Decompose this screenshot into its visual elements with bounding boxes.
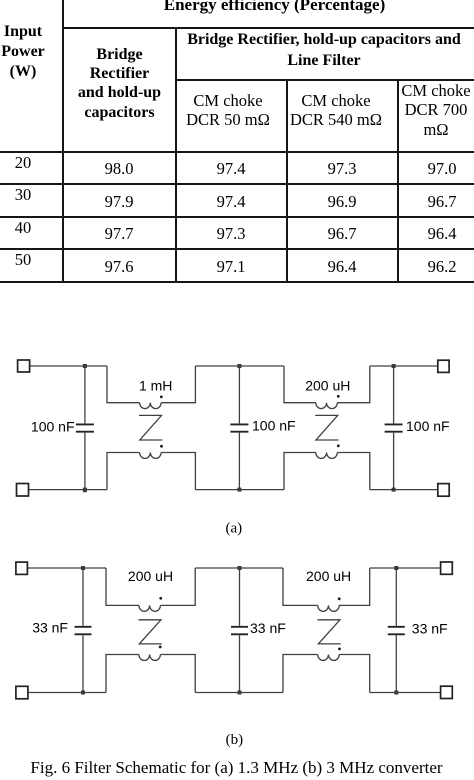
table horizontal line H4: [0, 183, 474, 185]
capacitor C5 33nF (b) top lead: [239, 568, 241, 626]
wire: (b) bottom rail left segment: [28, 692, 106, 694]
junction node (a) bottom of C3: [392, 488, 396, 492]
CM choke L2 (a) top winding wire right step: [337, 366, 370, 403]
table horizontal line H5: [0, 216, 474, 218]
capacitor C2 (a) plates: [230, 423, 248, 425]
CM choke L4 (b) bottom winding wire right step: [339, 655, 370, 693]
data row 1: 20: [0, 155, 63, 171]
CM choke L3 (b) bottom winding coil: [139, 655, 161, 661]
capacitor C3 100nF (a) bottom lead: [393, 433, 395, 490]
polarity dot L3 (b) top: [159, 597, 162, 600]
svg-text:33 nF: 33 nF: [32, 620, 68, 636]
table vertical line V1: [62, 0, 64, 283]
CM choke L1 (a) top winding coil: [140, 403, 162, 409]
junction node (b) top of C5: [238, 566, 242, 570]
CM choke L1 (a) top winding wire left step: [107, 366, 140, 403]
capacitor C6 33nF (b) bottom lead: [395, 635, 397, 692]
capacitor C4 33nF (b) bottom lead: [82, 635, 84, 692]
header: Input Power (W): [0, 22, 63, 82]
CM choke L3 (b) bottom winding wire right step: [160, 655, 195, 693]
capacitor C5 33nF (b) bottom lead: [239, 635, 241, 692]
header: CM choke DCR 50 mOhm: [168, 91, 288, 130]
table vertical line V4: [397, 79, 399, 283]
CM choke L2 (a) bottom winding wire right step: [337, 453, 370, 490]
svg-text:200 uH: 200 uH: [128, 568, 173, 584]
header: CM choke DCR 540 mOhm: [276, 91, 396, 130]
svg-text:200 uH: 200 uH: [306, 568, 351, 584]
header: CM choke DCR 700 mOhm: [386, 81, 474, 140]
wire: (a) bottom rail right segment: [370, 489, 438, 491]
CM choke L3 (b) top winding wire left step: [106, 568, 139, 605]
CM choke L1 (a) core Z symbol: [139, 415, 162, 440]
wire: (a) bottom rail middle segment: [195, 489, 284, 491]
junction node (b) bottom of C6: [394, 691, 398, 695]
svg-text:33 nF: 33 nF: [412, 621, 448, 637]
table vertical line V3: [286, 79, 288, 283]
junction node (a) top of C2: [237, 364, 241, 368]
CM choke L3 (b) top winding coil: [139, 605, 161, 611]
wire: (a) top rail right segment: [370, 365, 438, 367]
wire: (a) top rail middle segment: [195, 365, 284, 367]
polarity dot L1 (a) bottom: [160, 445, 163, 448]
table vertical line V2: [175, 27, 177, 283]
table horizontal line H3: [0, 151, 474, 153]
CM choke L1 (a) top winding wire right step: [161, 366, 195, 403]
wire: (a) bottom rail left segment: [29, 489, 108, 491]
svg-text:100 nF: 100 nF: [252, 418, 296, 434]
wire: (b) bottom rail middle segment: [195, 692, 283, 694]
terminal port (a) bottom-left: [17, 484, 29, 497]
capacitor C3 100nF (a) top lead: [393, 366, 395, 423]
data row 4: 50: [0, 252, 63, 268]
polarity dot L1 (a) top: [160, 396, 163, 399]
svg-text:100 nF: 100 nF: [406, 418, 450, 434]
capacitor C2 100nF (a) top lead: [238, 366, 240, 423]
CM choke L1 (a) bottom winding coil: [140, 453, 162, 459]
header: Energy efficiency (Percentage): [125, 0, 425, 13]
wire: (a) top rail left segment: [30, 365, 107, 367]
CM choke L2 (a) top winding coil: [316, 403, 338, 409]
data row 3: 40: [0, 220, 63, 236]
terminal port (b) top-left: [16, 562, 28, 574]
svg-text:1 mH: 1 mH: [139, 378, 172, 394]
terminal port (a) top-left: [18, 360, 30, 372]
capacitor C4 33nF (b) top lead: [82, 568, 84, 626]
capacitor C1 100nF (a) top lead: [84, 366, 86, 423]
junction node (a) top of C1: [83, 364, 87, 368]
wire: (b) bottom rail right segment: [370, 692, 441, 694]
CM choke L2 (a) bottom winding wire left step: [284, 453, 316, 490]
junction node (b) bottom of C5: [238, 691, 242, 695]
CM choke L4 (b) top winding coil: [318, 605, 340, 611]
polarity dot L4 (b) top: [338, 597, 341, 600]
table horizontal line H1: [62, 27, 474, 29]
svg-text:Fig. 6 Filter Schematic for (a: Fig. 6 Filter Schematic for (a) 1.3 MHz …: [30, 758, 442, 777]
table horizontal line H7: [0, 281, 474, 283]
CM choke L4 (b) bottom winding coil: [318, 655, 340, 661]
table horizontal line H2: [175, 79, 474, 81]
table horizontal line H6: [0, 248, 474, 250]
junction node (b) top of C6: [394, 566, 398, 570]
svg-text:33 nF: 33 nF: [250, 620, 286, 636]
CM choke L3 (b) bottom winding wire left step: [106, 655, 139, 693]
wire: (b) top rail left segment: [27, 567, 106, 569]
capacitor C1 100nF (a) bottom lead: [84, 433, 86, 490]
header: Bridge Rectifier, hold-up capacitors and Line Filter: [174, 29, 474, 71]
capacitor C6 33nF (b) top lead: [395, 568, 397, 626]
data row 2: 30: [0, 187, 63, 203]
capacitor C3 (a) plates: [385, 423, 403, 425]
junction node (a) top of C3: [392, 364, 396, 368]
polarity dot L2 (a) top: [337, 395, 340, 398]
svg-text:(b): (b): [226, 732, 244, 748]
wire: (b) top rail right segment: [370, 567, 441, 569]
capacitor C4 (b) plates: [75, 626, 92, 628]
CM choke L4 (b) bottom winding wire left step: [283, 655, 318, 693]
capacitor C1 (a) plates: [76, 423, 94, 425]
CM choke L4 (b) top winding wire right step: [339, 568, 370, 605]
header: Bridge Rectifier and hold-up capacitors: [63, 45, 176, 123]
junction node (a) bottom of C2: [237, 488, 241, 492]
CM choke L3 (b) core Z symbol: [139, 620, 162, 644]
svg-text:(a): (a): [225, 521, 242, 537]
terminal port (b) bottom-right: [441, 686, 453, 698]
terminal port (b) top-right: [441, 562, 453, 574]
capacitor C5 (b) plates: [231, 626, 248, 628]
junction node (b) top of C4: [81, 566, 85, 570]
polarity dot L3 (b) bottom: [159, 646, 162, 649]
wire: (b) top rail middle segment: [195, 567, 283, 569]
CM choke L1 (a) bottom winding wire right step: [161, 453, 195, 490]
CM choke L2 (a) core Z symbol: [315, 415, 338, 440]
terminal port (a) bottom-right: [438, 484, 449, 497]
svg-text:100 nF: 100 nF: [31, 419, 75, 435]
CM choke L3 (b) top winding wire right step: [160, 568, 195, 605]
CM choke L2 (a) top winding wire left step: [284, 366, 316, 403]
CM choke L4 (b) top winding wire left step: [283, 568, 318, 605]
svg-text:200 uH: 200 uH: [305, 377, 350, 393]
junction node (a) bottom of C1: [83, 488, 87, 493]
CM choke L2 (a) bottom winding coil: [316, 453, 338, 459]
terminal port (a) top-right: [438, 360, 449, 372]
CM choke L4 (b) core Z symbol: [318, 620, 341, 644]
polarity dot L4 (b) bottom: [338, 648, 341, 651]
capacitor C2 100nF (a) bottom lead: [238, 433, 240, 490]
terminal port (b) bottom-left: [16, 686, 28, 699]
CM choke L1 (a) bottom winding wire left step: [107, 453, 140, 490]
polarity dot L2 (a) bottom: [337, 444, 340, 447]
capacitor C6 (b) plates: [388, 626, 405, 628]
junction node (b) bottom of C4: [81, 691, 85, 695]
